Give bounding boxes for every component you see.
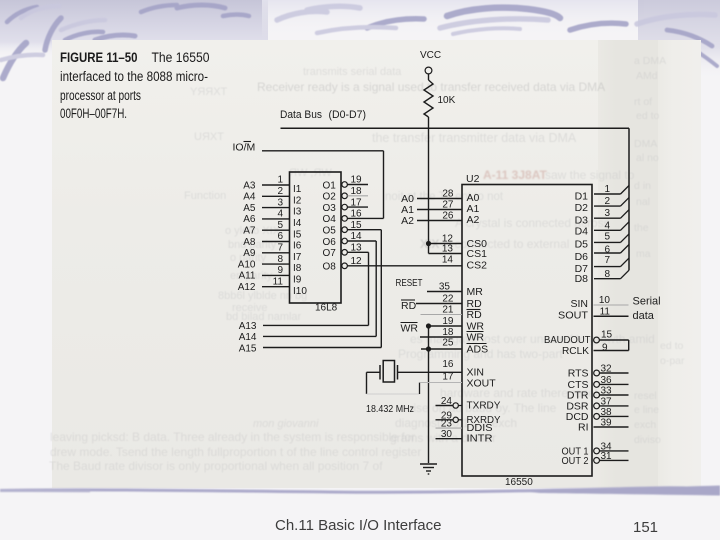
svg-text:D3: D3 bbox=[575, 215, 589, 227]
svg-text:CS2: CS2 bbox=[467, 259, 488, 271]
wire A12 to PAL I10 bbox=[262, 286, 290, 288]
crystal Y1 bbox=[380, 361, 398, 383]
svg-text:O6: O6 bbox=[323, 237, 337, 248]
wire crystal bottom to XOUT bbox=[367, 393, 420, 395]
svg-text:I3: I3 bbox=[293, 207, 302, 218]
wire D5 bbox=[594, 241, 621, 243]
wire A8 to PAL I6 bbox=[262, 241, 290, 243]
PAL O5 inversion bubble bbox=[342, 227, 348, 233]
wire D6 bus slash bbox=[621, 245, 630, 254]
wire RD-bar to U2 pin 22 bbox=[416, 303, 462, 305]
wire RI stub bbox=[594, 426, 629, 428]
wire A1 to U2 bbox=[417, 209, 462, 211]
svg-text:D1: D1 bbox=[575, 190, 589, 202]
svg-text:SOUT: SOUT bbox=[558, 310, 589, 322]
svg-text:ADS: ADS bbox=[467, 344, 489, 356]
scanned page area bbox=[52, 40, 701, 488]
wire D2 bbox=[594, 205, 621, 207]
wire IO/M to PAL bbox=[262, 150, 384, 152]
wire A7 to PAL I5 bbox=[262, 229, 290, 231]
wire RCLK bbox=[594, 350, 629, 352]
wire D4 bbox=[594, 229, 621, 231]
PAL O2 inversion bubble bbox=[342, 193, 348, 199]
svg-text:MR: MR bbox=[467, 286, 484, 298]
wire crystal left down bbox=[366, 372, 368, 394]
wire to ground bbox=[428, 326, 430, 463]
wire PAL pin16 to IO/M vertical bbox=[347, 217, 383, 219]
PAL O4 inversion bubble bbox=[342, 216, 348, 222]
wire D8 bus slash bbox=[621, 270, 630, 279]
wire PAL pin15 vertical to A15 bbox=[380, 230, 382, 348]
svg-text:O5: O5 bbox=[323, 226, 337, 237]
wire D4 bus slash bbox=[621, 222, 630, 231]
svg-text:data: data bbox=[633, 310, 655, 322]
wire PAL O5 stub bbox=[347, 229, 381, 231]
svg-text:A4: A4 bbox=[243, 192, 256, 203]
svg-text:U2: U2 bbox=[466, 173, 480, 185]
svg-text:32: 32 bbox=[601, 364, 613, 375]
wire D7 bbox=[594, 266, 621, 268]
svg-text:A15: A15 bbox=[239, 343, 257, 354]
svg-text:18.432 MHz: 18.432 MHz bbox=[366, 404, 414, 415]
svg-text:O8: O8 bbox=[323, 262, 337, 273]
wire U2 pin 19 bbox=[429, 325, 463, 327]
wire PAL O3 stub bbox=[347, 206, 368, 208]
svg-text:TXRDY: TXRDY bbox=[467, 400, 501, 412]
svg-text:SIN: SIN bbox=[570, 298, 588, 310]
wire DTR stub bbox=[600, 394, 629, 396]
svg-text:I7: I7 bbox=[293, 252, 302, 263]
svg-text:39: 39 bbox=[601, 418, 613, 429]
PAL O1 inversion bubble bbox=[342, 182, 348, 188]
wire data bus horizontal bbox=[281, 127, 630, 129]
svg-text:O7: O7 bbox=[323, 248, 337, 259]
svg-text:33: 33 bbox=[601, 386, 613, 397]
wire crystal left terminal bbox=[367, 371, 381, 373]
wire INTR stub bbox=[436, 438, 463, 440]
svg-text:processor at ports: processor at ports bbox=[60, 88, 141, 104]
wire XOUT stub bbox=[420, 382, 463, 384]
VCC terminal circle bbox=[425, 67, 432, 74]
wire A0 to U2 bbox=[417, 198, 462, 200]
wire PAL O6 stub bbox=[347, 240, 376, 242]
CTS inversion bubble bbox=[594, 382, 600, 388]
wire D7 bus slash bbox=[621, 258, 630, 267]
svg-text:5: 5 bbox=[604, 231, 610, 242]
svg-text:Serial: Serial bbox=[633, 296, 661, 308]
PAL O3 inversion bubble bbox=[342, 204, 348, 210]
svg-text:11: 11 bbox=[273, 276, 284, 287]
wire PAL O2 stub bbox=[347, 195, 368, 197]
svg-text:10: 10 bbox=[599, 295, 611, 306]
wire D3 bus slash bbox=[621, 210, 630, 219]
wire resistor to CS0 bbox=[428, 117, 430, 244]
svg-text:4: 4 bbox=[277, 209, 283, 220]
svg-text:RTS: RTS bbox=[568, 368, 589, 380]
wire DSR stub bbox=[600, 405, 629, 407]
svg-text:6: 6 bbox=[277, 231, 283, 242]
wire RESET to MR bbox=[427, 291, 462, 293]
svg-text:Data Bus: Data Bus bbox=[280, 109, 322, 121]
wire pull-up to CS1 bbox=[429, 253, 463, 255]
wire SIN bbox=[594, 304, 629, 306]
svg-text:D2: D2 bbox=[575, 202, 589, 214]
svg-text:A5: A5 bbox=[243, 203, 256, 214]
svg-text:RESET: RESET bbox=[396, 277, 423, 289]
svg-text:O4: O4 bbox=[323, 214, 337, 225]
svg-text:interfaced to the 8088 micro-: interfaced to the 8088 micro- bbox=[60, 69, 208, 85]
svg-text:A8: A8 bbox=[243, 237, 256, 248]
svg-text:RD: RD bbox=[467, 309, 483, 321]
wire A15 bbox=[263, 347, 381, 349]
wire CTS stub bbox=[600, 383, 629, 385]
wire crystal to XIN bbox=[398, 371, 463, 373]
svg-text:A7: A7 bbox=[243, 226, 256, 237]
svg-text:INTR: INTR bbox=[467, 433, 493, 445]
PAL O8 inversion bubble bbox=[342, 263, 348, 269]
OUT 1 inversion bubble bbox=[594, 448, 600, 454]
wire A2 to U2 bbox=[417, 220, 462, 222]
svg-text:A14: A14 bbox=[239, 332, 257, 343]
svg-text:9: 9 bbox=[277, 265, 283, 276]
OUT 2 inversion bubble bbox=[594, 458, 600, 464]
svg-text:37: 37 bbox=[601, 396, 613, 407]
bleed-through faint text bbox=[303, 66, 401, 78]
right column fragments bbox=[634, 55, 666, 67]
RXRDY inversion bubble bbox=[453, 417, 458, 422]
PAL O7 inversion bubble bbox=[342, 250, 348, 256]
svg-text:I5: I5 bbox=[293, 229, 302, 240]
svg-text:14: 14 bbox=[442, 255, 454, 266]
wire pull-up to CS0 bbox=[429, 243, 463, 245]
wire TXRDY stub bbox=[436, 405, 453, 407]
svg-text:(D0-D7): (D0-D7) bbox=[329, 109, 367, 121]
top decorative band bbox=[0, 0, 720, 110]
bottom purple stroke bbox=[0, 480, 720, 504]
svg-text:1: 1 bbox=[277, 175, 283, 186]
junction ADS/ground line bbox=[426, 346, 431, 351]
wire WR-bar to U2 pin 18 bbox=[420, 336, 462, 338]
svg-text:36: 36 bbox=[601, 375, 613, 386]
svg-text:A11: A11 bbox=[238, 271, 255, 282]
wire ADS bbox=[421, 348, 462, 350]
svg-text:I2: I2 bbox=[293, 195, 302, 206]
svg-text:RD: RD bbox=[401, 300, 417, 312]
DTR inversion bubble bbox=[594, 392, 600, 398]
junction WR/ground line bbox=[426, 323, 431, 328]
wire A10 to PAL I8 bbox=[262, 263, 290, 265]
wire D8 bbox=[594, 278, 621, 280]
wire PAL O1 stub bbox=[347, 184, 368, 186]
svg-text:10K: 10K bbox=[438, 95, 456, 106]
wire junction to CS1 bbox=[428, 244, 430, 254]
svg-text:5: 5 bbox=[277, 220, 283, 231]
svg-text:XOUT: XOUT bbox=[467, 377, 497, 389]
svg-text:2: 2 bbox=[277, 186, 283, 197]
RTS inversion bubble bbox=[594, 370, 600, 376]
wire A3 to PAL I1 bbox=[262, 184, 290, 186]
svg-text:O1: O1 bbox=[323, 180, 337, 191]
svg-text:I10: I10 bbox=[293, 286, 307, 297]
wire D2 bus slash bbox=[621, 198, 630, 207]
wire RXRDY bubble to chip bbox=[459, 419, 463, 421]
svg-text:2: 2 bbox=[604, 196, 610, 207]
wire D3 bbox=[594, 217, 621, 219]
svg-text:The 16550: The 16550 bbox=[152, 50, 210, 66]
svg-text:8: 8 bbox=[277, 254, 283, 265]
wire A6 to PAL I4 bbox=[262, 218, 290, 220]
UART U2 16550 body bbox=[462, 185, 592, 477]
wire BAUDOUT to RCLK vertical bbox=[628, 340, 630, 351]
svg-text:7: 7 bbox=[604, 255, 610, 266]
svg-text:9: 9 bbox=[602, 343, 608, 354]
svg-text:WR: WR bbox=[401, 323, 419, 335]
PAL U1 16L8 body bbox=[290, 172, 342, 303]
wire D1 bus slash bbox=[621, 186, 630, 195]
svg-text:A2: A2 bbox=[401, 215, 414, 227]
wire OUT 2 stub bbox=[600, 459, 629, 461]
wire BAUDOUT bbox=[599, 339, 628, 341]
svg-text:D6: D6 bbox=[575, 251, 589, 263]
wire A13 bbox=[263, 324, 369, 326]
svg-text:I4: I4 bbox=[293, 218, 302, 229]
ground symbol bbox=[420, 464, 437, 474]
wire RTS stub bbox=[600, 372, 629, 374]
svg-text:16L8: 16L8 bbox=[315, 303, 338, 314]
svg-text:O2: O2 bbox=[323, 192, 337, 203]
wire IO/M vertical to PAL pin 16 bbox=[383, 151, 385, 219]
DSR inversion bubble bbox=[594, 403, 600, 409]
footer bbox=[0, 511, 720, 513]
svg-text:A2: A2 bbox=[467, 214, 480, 226]
wire A11 to PAL I9 bbox=[262, 274, 290, 276]
wire D1 bbox=[594, 193, 621, 195]
junction CS0/pull-up bbox=[426, 241, 431, 246]
DCD inversion bubble bbox=[594, 414, 600, 420]
svg-text:38: 38 bbox=[601, 407, 613, 418]
wire PAL pin14 vertical to A14 bbox=[375, 241, 377, 336]
svg-text:15: 15 bbox=[601, 330, 613, 341]
wire A14 bbox=[263, 335, 376, 337]
wire D6 bbox=[594, 252, 621, 254]
svg-text:I8: I8 bbox=[293, 263, 302, 274]
wire TXRDY bubble to chip bbox=[459, 405, 463, 407]
wire DDIS stub bbox=[436, 427, 463, 429]
svg-text:A6: A6 bbox=[243, 214, 256, 225]
svg-text:00F0H–00F7H.: 00F0H–00F7H. bbox=[60, 106, 127, 122]
PAL O6 inversion bubble bbox=[342, 238, 348, 244]
svg-text:A9: A9 bbox=[243, 248, 256, 259]
wire PAL O8 to 16550 CS2 bbox=[347, 265, 462, 267]
svg-text:VCC: VCC bbox=[420, 50, 441, 61]
svg-text:O3: O3 bbox=[323, 203, 337, 214]
wire XOUT down bbox=[419, 383, 421, 395]
svg-text:I9: I9 bbox=[293, 275, 302, 286]
svg-text:RI: RI bbox=[578, 422, 589, 434]
wire D5 bus slash bbox=[621, 234, 630, 243]
svg-text:D8: D8 bbox=[575, 273, 589, 285]
svg-text:A12: A12 bbox=[238, 282, 256, 293]
wire data bus vertical drop to D pins bbox=[628, 128, 630, 270]
svg-text:OUT 2: OUT 2 bbox=[562, 455, 589, 467]
svg-text:RCLK: RCLK bbox=[562, 345, 589, 357]
svg-text:D5: D5 bbox=[575, 239, 589, 251]
resistor R1 10K bbox=[424, 80, 433, 117]
figure caption bbox=[60, 50, 210, 122]
svg-text:IO/M: IO/M bbox=[233, 142, 256, 154]
svg-text:3: 3 bbox=[604, 208, 610, 219]
wire A5 to PAL I3 bbox=[262, 207, 290, 209]
svg-text:FIGURE 11–50: FIGURE 11–50 bbox=[60, 50, 138, 66]
wire SOUT bbox=[594, 315, 629, 317]
wire A9 to PAL I7 bbox=[262, 252, 290, 254]
wire A4 to PAL I2 bbox=[262, 195, 290, 197]
wire U2 pin 21 stub bbox=[421, 314, 463, 316]
wire RXRDY stub bbox=[436, 419, 453, 421]
svg-text:16: 16 bbox=[442, 359, 454, 370]
BAUDOUT inversion bubble bbox=[594, 337, 600, 343]
svg-text:A3: A3 bbox=[243, 180, 256, 191]
svg-text:25: 25 bbox=[442, 338, 454, 349]
wire PAL pin13 vertical to A13 bbox=[368, 252, 370, 325]
svg-text:D4: D4 bbox=[575, 226, 589, 238]
wire OUT 1 stub bbox=[600, 450, 629, 452]
svg-text:I1: I1 bbox=[293, 184, 302, 195]
TXRDY inversion bubble bbox=[453, 403, 458, 408]
svg-text:3: 3 bbox=[277, 197, 283, 208]
svg-text:7: 7 bbox=[277, 243, 283, 254]
svg-text:A10: A10 bbox=[238, 259, 256, 270]
svg-text:31: 31 bbox=[601, 451, 613, 462]
svg-text:I6: I6 bbox=[293, 241, 302, 252]
svg-text:17: 17 bbox=[442, 372, 454, 383]
wire DCD stub bbox=[600, 415, 629, 417]
wire VCC to resistor bbox=[428, 74, 430, 80]
svg-text:WR: WR bbox=[467, 332, 485, 344]
svg-text:A13: A13 bbox=[239, 321, 257, 332]
wire PAL O7 stub bbox=[347, 251, 368, 253]
